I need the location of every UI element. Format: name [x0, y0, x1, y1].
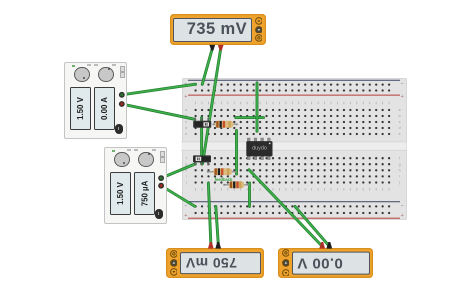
wire supply PS2 green terminal to switch S2 pin 1: [161, 164, 195, 178]
breadboard top rail red line: [188, 95, 400, 96]
terminal PS1 red: [119, 101, 125, 107]
multimeter M1 black probe: [209, 45, 215, 51]
terminal PS2 red: [158, 183, 164, 189]
breadboard center channel: [182, 141, 407, 151]
wire switch S1 middle pin to switch S2 middle pin: [200, 118, 203, 164]
wire resistor R3 right column to bottom rail: [248, 183, 251, 207]
multimeter M3 black probe: [326, 242, 332, 249]
main hole rows a-e: [194, 109, 390, 111]
resistor R3 1k (row j): [223, 181, 249, 188]
top rail hole rows: [194, 83, 390, 85]
breadboard bottom rail blue line: [188, 201, 400, 202]
power supply PS2 (1.50 V / 750 uA): [104, 147, 168, 224]
slide switch S1: [193, 118, 211, 128]
multimeter M3 (0.00 V, rotated 180): [278, 248, 373, 278]
main hole rows f-j: [194, 157, 390, 159]
bottom rail hole rows: [194, 205, 390, 207]
multimeter M2 black probe: [215, 242, 221, 249]
wire bottom rail to multimeter M2 black probe: [216, 206, 218, 243]
wire multimeter M1 black probe to top rail col2: [202, 49, 212, 85]
breadboard: [182, 78, 407, 220]
multimeter M1 (735 mV): [170, 14, 266, 45]
multimeter M2 (750 mV, rotated 180): [166, 248, 264, 278]
wire row h to multimeter M3 red probe: [249, 170, 322, 246]
multimeter M2 red probe: [208, 242, 214, 249]
wire row j to multimeter M2 red probe: [208, 183, 210, 243]
wire supply PS1 red terminal to switch S1 pin 1: [122, 104, 195, 119]
wire bottom rail to multimeter M3 black probe: [295, 206, 329, 246]
resistor R1 1k (row c): [212, 121, 238, 128]
rail polarity signs: [184, 81, 404, 209]
resistor R2 1k (row h): [207, 168, 237, 175]
power supply PS1 (1.50 V / 0.00 A): [64, 62, 128, 139]
breadboard bottom rail red line: [188, 218, 400, 219]
IC U1 "duydo" 8-pin DIP: [246, 138, 272, 160]
slide switch S2: [193, 155, 211, 165]
column number tick rows: [195, 102, 389, 105]
wire supply PS1 green terminal to top rail minus row col1: [122, 84, 196, 95]
terminal PS2 green: [158, 175, 164, 181]
wire supply PS2 red terminal to bottom rail col1: [161, 186, 195, 207]
multimeter M1 red probe: [218, 45, 224, 51]
breadboard top rail blue line: [188, 80, 400, 81]
wire multimeter M1 red probe to switch S2 middle pin: [203, 49, 221, 164]
wire row d top half to row j bottom half crossing channel: [235, 130, 238, 174]
wire top rail to row d above IC U1: [256, 83, 259, 131]
wire row b: resistor R1 column to IC U1 pin column: [236, 116, 264, 119]
multimeter M3 red probe: [319, 242, 325, 249]
row letter labels: [185, 108, 401, 185]
terminal PS1 green: [119, 92, 125, 98]
